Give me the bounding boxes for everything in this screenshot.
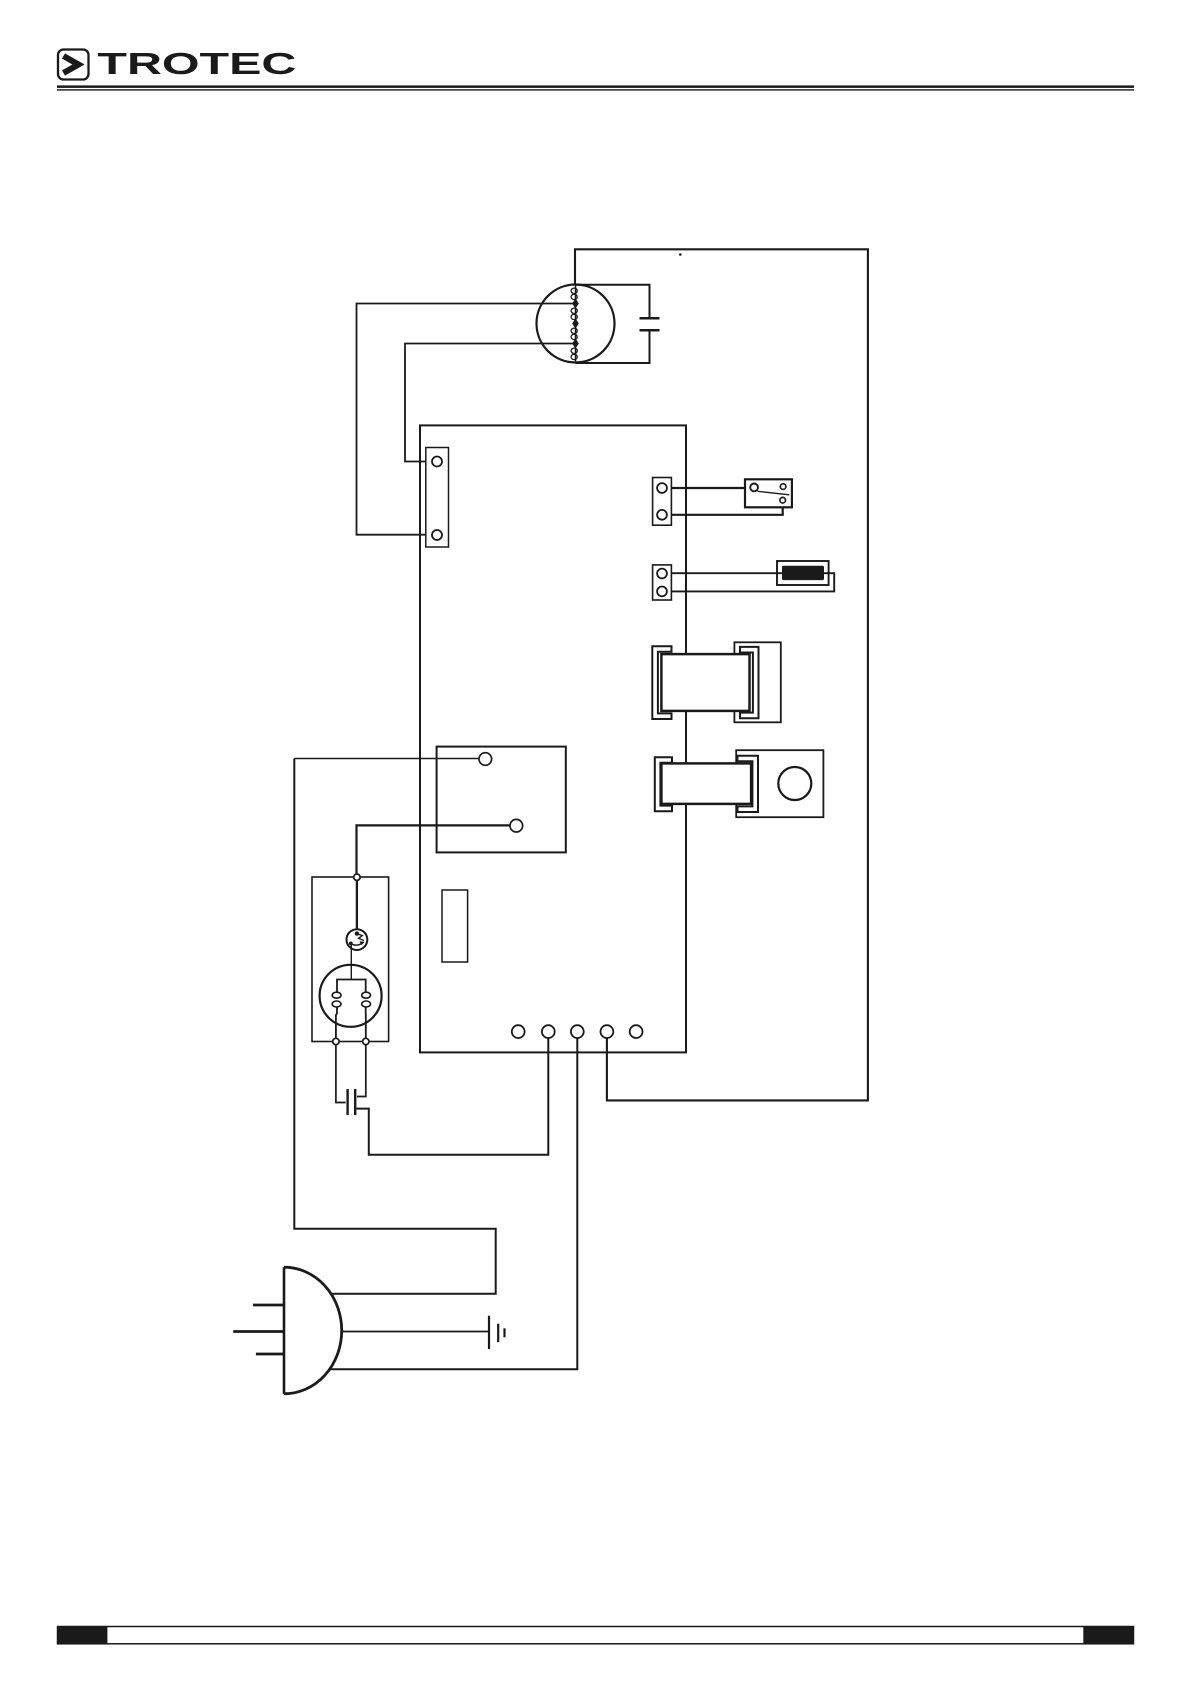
wire capacitor C1 bottom to motor bottom <box>576 332 650 364</box>
wire fan motor tap3 to CN1 upper pin <box>405 344 575 462</box>
float switch S1 <box>745 479 792 507</box>
start capacitor plates <box>346 1089 348 1115</box>
overload protector <box>347 929 368 950</box>
PCB small component <box>442 890 468 962</box>
PCB pin 4 <box>601 1025 614 1038</box>
PCB pin 1 <box>512 1025 525 1038</box>
relay RL2 indicator circle <box>778 767 811 800</box>
wire outer loop (fan motor supply) <box>575 249 868 1100</box>
wire overload to compressor motor <box>350 945 352 980</box>
relay RL1 frame <box>734 642 780 722</box>
PCB pin 3 <box>571 1025 584 1038</box>
relay RL2 left core bracket <box>655 757 672 811</box>
wire compressor right pin to start capacitor <box>357 1045 366 1097</box>
wire motor top to capacitor C1 <box>576 285 650 317</box>
wire fan motor tap1 to CN1 lower pin <box>357 304 576 535</box>
thermostat terminal lower <box>510 819 523 832</box>
PCB pin 5 <box>630 1025 643 1038</box>
footer right block <box>1083 1626 1133 1644</box>
thermostat box <box>437 747 566 853</box>
compressor motor <box>320 965 382 1039</box>
wire compressor left pin to start capacitor <box>336 1045 346 1103</box>
header rule thick <box>57 85 1134 88</box>
footer left block <box>57 1626 107 1644</box>
connector CN1 <box>426 448 449 548</box>
wire mains plug earth to ground <box>342 1331 489 1333</box>
footer bar outline <box>58 1627 1134 1644</box>
compressor box <box>312 877 389 1042</box>
capacitor C1 plates <box>640 317 660 320</box>
stray dot <box>679 253 682 256</box>
thermostat terminal upper <box>479 753 492 766</box>
wire CN3 upper pin through fuse, around to CN3 lower pin <box>667 573 834 591</box>
wire PCB pin 3 to mains plug neutral <box>330 1038 577 1369</box>
header rule thin <box>57 89 1134 90</box>
wire thermostat upper terminal to mains plug live <box>294 758 479 760</box>
relay RL2 frame <box>736 750 823 817</box>
wire node to overload protector <box>356 881 358 930</box>
relay RL2 right core bracket <box>738 756 759 812</box>
ground symbol <box>489 1316 505 1349</box>
wire start capacitor to PCB pin 2 <box>357 1038 549 1155</box>
svg-text:TROTEC: TROTEC <box>97 47 296 81</box>
relay RL1 right core bracket <box>740 647 759 718</box>
relay RL2 coil body <box>661 763 751 804</box>
compressor pin left <box>333 1038 339 1044</box>
logo TROTEC box <box>58 50 89 80</box>
wire float switch S1 lower pin back to CN2 lower pin <box>667 503 783 515</box>
wire CN2 upper pin to float switch S1 <box>667 487 750 489</box>
relay RL1 left core bracket <box>652 646 671 719</box>
compressor pin right <box>363 1038 369 1044</box>
fan motor M1 <box>537 285 615 363</box>
fuse F1 outline <box>777 561 829 585</box>
fuse F1 body <box>782 566 824 580</box>
connector CN2 <box>653 478 672 526</box>
relay RL1 coil body <box>661 654 749 711</box>
PCB pin 2 <box>542 1025 555 1038</box>
mains plug <box>233 1267 342 1394</box>
wire thermostat lower terminal to compressor node <box>357 825 511 874</box>
compressor node terminal <box>354 874 360 880</box>
connector CN3 <box>653 565 672 600</box>
PCB board outline <box>420 425 686 1052</box>
